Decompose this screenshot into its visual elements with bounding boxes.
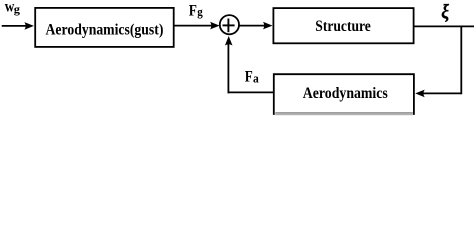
svg-text:ξ: ξ (441, 1, 449, 23)
svg-text:g: g (197, 4, 203, 19)
svg-text:a: a (253, 71, 259, 85)
svg-text:Structure: Structure (315, 18, 371, 35)
svg-text:F: F (189, 3, 197, 20)
svg-text:g: g (14, 4, 20, 16)
svg-text:Aerodynamics: Aerodynamics (303, 85, 388, 102)
svg-text:Aerodynamics(gust): Aerodynamics(gust) (46, 21, 164, 38)
svg-text:F: F (245, 69, 253, 86)
